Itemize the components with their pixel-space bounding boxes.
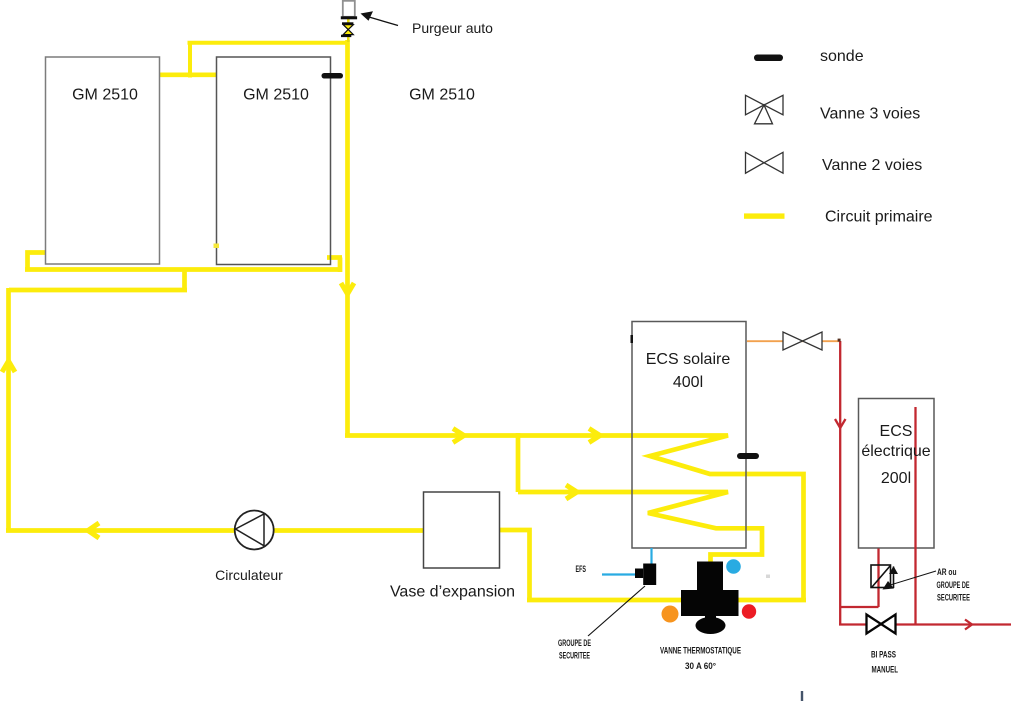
- svg-text:Circulateur: Circulateur: [215, 567, 283, 583]
- svg-text:Purgeur auto: Purgeur auto: [412, 20, 493, 36]
- svg-text:SECURITEE: SECURITEE: [559, 651, 590, 662]
- svg-text:Vase d’expansion: Vase d’expansion: [390, 584, 515, 601]
- svg-text:GM 2510: GM 2510: [243, 87, 309, 104]
- svg-text:GROUPE DE: GROUPE DE: [558, 638, 591, 649]
- svg-text:GM 2510: GM 2510: [409, 87, 475, 104]
- svg-text:AR ou: AR ou: [937, 567, 957, 578]
- svg-text:GROUPE DE: GROUPE DE: [937, 580, 970, 591]
- svg-text:BI PASS: BI PASS: [871, 650, 896, 661]
- svg-text:ECS solaire: ECS solaire: [646, 351, 731, 368]
- svg-text:30 A 60°: 30 A 60°: [685, 661, 716, 672]
- svg-text:Vanne 3 voies: Vanne 3 voies: [820, 106, 920, 123]
- svg-text:ECS: ECS: [880, 423, 913, 440]
- svg-text:200l: 200l: [881, 470, 911, 487]
- svg-text:GM 2510: GM 2510: [72, 87, 138, 104]
- svg-text:EFS: EFS: [576, 564, 587, 575]
- svg-text:MANUEL: MANUEL: [872, 665, 899, 676]
- svg-text:Vanne 2 voies: Vanne 2 voies: [822, 157, 922, 174]
- svg-text:VANNE THERMOSTATIQUE: VANNE THERMOSTATIQUE: [660, 646, 741, 657]
- svg-text:sonde: sonde: [820, 48, 864, 65]
- svg-text:SECURITEE: SECURITEE: [937, 593, 970, 604]
- svg-text:400l: 400l: [673, 374, 703, 391]
- svg-text:électrique: électrique: [861, 443, 930, 460]
- svg-text:Circuit primaire: Circuit primaire: [825, 209, 933, 226]
